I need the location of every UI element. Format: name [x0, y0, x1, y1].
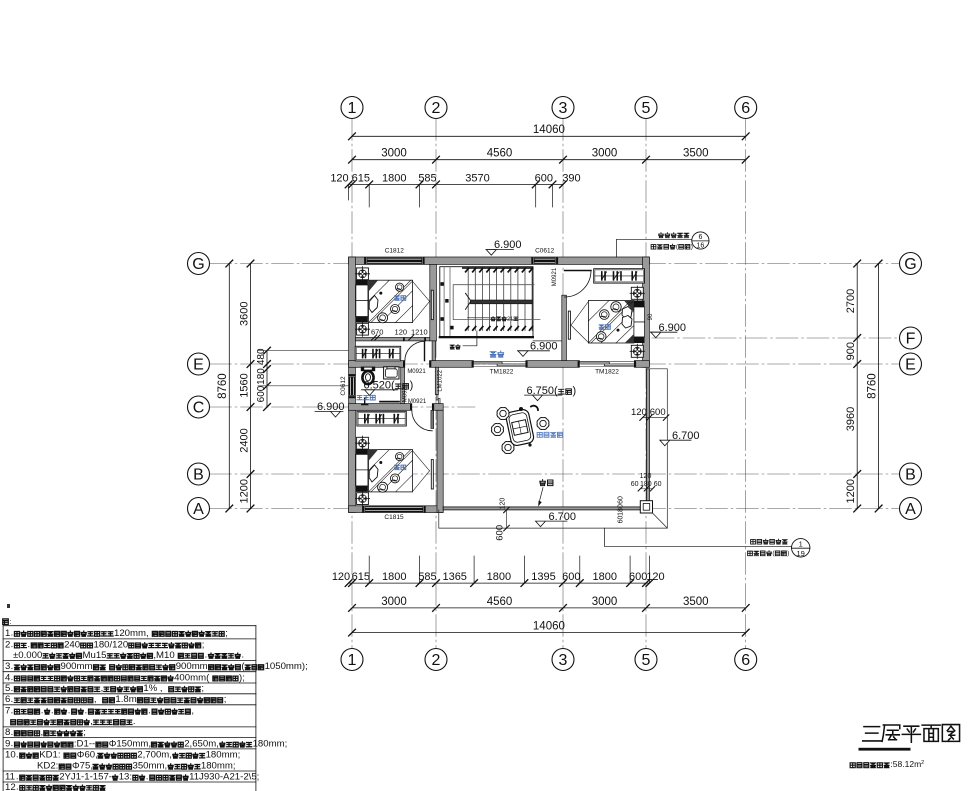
svg-text:5: 5	[5, 683, 10, 694]
svg-text:3: 3	[5, 661, 10, 672]
svg-text:11J930-A21-2\5;: 11J930-A21-2\5;	[189, 772, 259, 783]
svg-text::D1--: :D1--	[74, 739, 95, 750]
svg-text:3000: 3000	[381, 148, 407, 160]
svg-text:2400: 2400	[238, 428, 250, 452]
svg-text:C0612: C0612	[535, 248, 555, 255]
svg-text:KD1:: KD1:	[39, 750, 60, 761]
svg-text:900mm: 900mm	[176, 661, 208, 672]
svg-text:M0921: M0921	[408, 399, 427, 405]
svg-text:,: ,	[90, 716, 93, 727]
svg-text:Mu15: Mu15	[83, 650, 107, 661]
terrace slab edge	[439, 369, 668, 528]
svg-text:8760: 8760	[866, 373, 878, 399]
staircase	[440, 267, 533, 338]
sliding door LM1022	[436, 395, 440, 404]
svg-text:;: ;	[224, 694, 227, 705]
svg-text:): )	[787, 550, 789, 557]
detail bubble 6/16 top	[616, 239, 618, 257]
svg-text:Φ75,: Φ75,	[72, 761, 93, 772]
stair well leader	[463, 331, 477, 346]
sliding door TM1822 right	[579, 360, 634, 362]
svg-text:60: 60	[617, 516, 624, 524]
door M0921 bedroom2 (leaf+arc)	[431, 410, 434, 428]
svg-text:2: 2	[5, 639, 10, 650]
svg-text:KD2:: KD2:	[37, 761, 58, 772]
wall bedroom3 west	[562, 295, 567, 360]
axis bubbles right G F E B A	[900, 253, 922, 275]
svg-text:2YJ1-1-157-: 2YJ1-1-157-	[59, 772, 112, 783]
wall bedroom1 east (axis 2)	[430, 264, 437, 341]
svg-text:6: 6	[5, 694, 10, 705]
stair balusters	[441, 282, 444, 286]
svg-text:19: 19	[797, 549, 805, 558]
svg-text:2,700m,: 2,700m,	[137, 750, 172, 761]
bedroom2 wardrobe	[357, 411, 406, 426]
floor drain	[362, 399, 368, 405]
svg-text:C1815: C1815	[384, 514, 404, 521]
svg-text:TM1822: TM1822	[490, 369, 514, 376]
svg-text:3000: 3000	[381, 596, 407, 608]
bedroom1 wardrobe	[355, 346, 401, 361]
svg-text:,: ,	[191, 706, 194, 717]
railing bottom (terrace)	[443, 507, 649, 510]
svg-text:,: ,	[41, 727, 44, 738]
door M0921 bedroom3 (leaf+arc)	[565, 270, 592, 272]
svg-text:2,650m,: 2,650m,	[184, 739, 219, 750]
svg-text:;: ;	[225, 628, 228, 639]
svg-text:): )	[573, 385, 577, 397]
svg-text:,M10: ,M10	[153, 650, 174, 661]
svg-text:60: 60	[631, 481, 639, 488]
svg-text:2700: 2700	[845, 289, 857, 313]
window C0612 left (vertical)	[349, 377, 355, 396]
title san ceng ping mian tu (3rd floor plan)	[863, 727, 881, 741]
svg-text:A: A	[193, 501, 204, 518]
svg-text:B: B	[193, 467, 204, 484]
wall hall/terrace	[435, 367, 438, 394]
svg-text:2: 2	[432, 652, 441, 669]
svg-text:350mm,: 350mm,	[133, 761, 168, 772]
railing label with arrow	[540, 480, 546, 486]
outer wall left (axis 1)	[349, 257, 356, 513]
svg-text:C1812: C1812	[385, 248, 405, 255]
svg-text:1: 1	[348, 100, 357, 117]
svg-text:5: 5	[642, 652, 651, 669]
svg-text:615: 615	[352, 172, 370, 184]
svg-text:±0.000: ±0.000	[13, 650, 42, 661]
railing corner post	[640, 501, 652, 513]
svg-text:58.12m: 58.12m	[893, 759, 921, 769]
svg-text:14060: 14060	[533, 620, 565, 632]
stair handrail	[470, 300, 532, 304]
svg-text:;: ;	[202, 639, 205, 650]
stair treads	[468, 268, 532, 331]
svg-text:TM1822: TM1822	[595, 369, 619, 376]
bottom dimension chain small	[349, 582, 650, 584]
svg-text:120: 120	[330, 172, 348, 184]
svg-text:F: F	[906, 331, 916, 348]
floor area text	[850, 763, 855, 768]
svg-text:3: 3	[559, 100, 568, 117]
svg-text:400mm(: 400mm(	[174, 672, 210, 683]
svg-text:3000: 3000	[592, 596, 618, 608]
svg-text:180mm;: 180mm;	[206, 750, 241, 761]
svg-text:3500: 3500	[683, 596, 709, 608]
terrace table and chairs	[505, 408, 535, 446]
svg-text:615: 615	[352, 571, 370, 583]
svg-text:12: 12	[5, 782, 16, 791]
svg-text:C: C	[193, 400, 205, 417]
svg-text:5: 5	[642, 100, 651, 117]
wall axis C segments	[349, 404, 412, 411]
svg-text:1800: 1800	[382, 571, 406, 583]
svg-text:16: 16	[697, 243, 705, 250]
room labels	[490, 352, 496, 357]
svg-text:13:: 13:	[119, 772, 132, 783]
stair label xia san pao 21 bu	[468, 317, 490, 319]
svg-text:M0921: M0921	[552, 267, 558, 286]
svg-text:585: 585	[418, 172, 436, 184]
svg-text:390: 390	[562, 172, 580, 184]
svg-text:C0612: C0612	[340, 376, 347, 396]
window C0612 top	[534, 258, 556, 264]
general notes table	[3, 619, 9, 624]
svg-text:3570: 3570	[465, 172, 489, 184]
wall corridor west stub	[432, 341, 435, 361]
svg-text:180: 180	[256, 368, 267, 385]
railing right (terrace)	[646, 369, 649, 507]
window C1815 bottom	[365, 506, 423, 512]
svg-text:670: 670	[371, 328, 384, 337]
svg-text:3500: 3500	[683, 148, 709, 160]
svg-text:600: 600	[629, 571, 647, 583]
svg-text:8760: 8760	[217, 373, 229, 399]
top dimension chain 3000 4560 3000 3500	[352, 159, 746, 161]
svg-text:240: 240	[64, 639, 80, 650]
svg-text:600: 600	[650, 407, 666, 418]
bottom dimension chain total 14060	[352, 632, 746, 634]
svg-text:90: 90	[648, 313, 654, 320]
svg-text:G: G	[904, 256, 916, 273]
svg-text:1200: 1200	[238, 479, 250, 503]
svg-text:1800: 1800	[593, 571, 617, 583]
corridor/stair hall divider line	[533, 340, 562, 342]
svg-text:120mm,: 120mm,	[114, 628, 149, 639]
stair mid landing outline	[453, 285, 540, 320]
left small chain 480 180 600	[266, 351, 268, 407]
svg-text:600: 600	[562, 571, 580, 583]
svg-text:180: 180	[617, 504, 624, 516]
svg-text:Φ150mm,: Φ150mm,	[109, 739, 151, 750]
svg-text:180mm;: 180mm;	[253, 739, 288, 750]
svg-text:1395: 1395	[531, 571, 555, 583]
svg-text:1800: 1800	[382, 172, 406, 184]
wash basin	[384, 367, 399, 379]
bedroom2 furniture (copy)	[355, 436, 433, 506]
svg-text:4: 4	[5, 672, 11, 683]
top dimension chain 120 615 1800 585 3570 600 390	[349, 183, 563, 185]
wall bathroom/hall	[401, 367, 405, 403]
detail bubble 1/19 bottom right	[604, 528, 606, 546]
svg-text:600: 600	[494, 525, 505, 541]
svg-text:60: 60	[617, 496, 624, 504]
svg-text:1: 1	[5, 628, 10, 639]
svg-text:A: A	[905, 501, 916, 518]
door jamb caps	[403, 361, 405, 368]
bottom witness lines	[368, 556, 370, 583]
svg-text:B: B	[905, 467, 916, 484]
bed3 corner triangle	[625, 334, 634, 343]
outer wall top (axis G)	[349, 257, 650, 264]
svg-text:1800: 1800	[487, 571, 511, 583]
svg-text:600: 600	[535, 172, 553, 184]
svg-text:2: 2	[432, 100, 441, 117]
svg-text:900mm: 900mm	[61, 661, 93, 672]
left dimension chain total 8760	[228, 264, 230, 509]
svg-text:180/120: 180/120	[94, 639, 129, 650]
svg-text:1560: 1560	[238, 373, 250, 397]
door M0921 bedroom1 (leaf+arc)	[424, 341, 426, 361]
wall bedroom2 east	[437, 410, 443, 512]
svg-text:3000: 3000	[592, 148, 618, 160]
svg-text:,: ,	[101, 683, 104, 694]
bathroom counter edge	[380, 401, 399, 403]
bedroom3 furniture	[631, 287, 643, 299]
bedroom3 wardrobe	[594, 269, 645, 283]
svg-text:3960: 3960	[845, 407, 857, 431]
stair bottom edge thick	[439, 336, 534, 338]
svg-text:180mm;: 180mm;	[201, 761, 236, 772]
bottom dimension chain 3000 4560 3000 3500	[352, 607, 746, 609]
svg-text:E: E	[905, 357, 916, 374]
svg-text:G: G	[192, 256, 204, 273]
svg-text:1200: 1200	[845, 479, 857, 503]
axis bubbles left G E C B A	[188, 253, 210, 275]
wall axis E segments	[349, 361, 405, 368]
bed3 corner triangle	[625, 334, 634, 343]
svg-text:,: ,	[94, 694, 97, 705]
window C1812	[367, 258, 422, 264]
right dimension chain 2700 900 3960 1200	[856, 264, 858, 509]
outer wall bottom of left block (axis A)	[349, 506, 444, 513]
svg-text:Φ60,: Φ60,	[77, 750, 98, 761]
svg-text:900: 900	[845, 342, 857, 360]
svg-text:;: ;	[83, 727, 86, 738]
svg-text:1.8m: 1.8m	[115, 694, 136, 705]
svg-text:1: 1	[348, 652, 357, 669]
svg-text::: :	[9, 619, 11, 626]
svg-text:10: 10	[5, 750, 16, 761]
svg-text:1: 1	[799, 540, 803, 549]
svg-text:8: 8	[5, 727, 10, 738]
svg-text:9: 9	[5, 739, 10, 750]
svg-text:4560: 4560	[487, 148, 513, 160]
svg-text:3: 3	[559, 652, 568, 669]
svg-text:6: 6	[698, 234, 702, 241]
svg-text:2: 2	[921, 760, 924, 766]
svg-text:.: .	[133, 716, 136, 727]
svg-text:21: 21	[507, 316, 513, 322]
svg-text:4560: 4560	[487, 596, 513, 608]
svg-text:E: E	[193, 357, 204, 374]
bedroom1 furniture (bed, stools, closet strip)	[355, 267, 433, 337]
stair top tick row	[462, 267, 534, 269]
left dimension chain 3600 1560 2400 1200	[250, 264, 252, 509]
axis bubbles top and bottom 1 2 3 5 6	[341, 97, 363, 119]
svg-text:1365: 1365	[442, 571, 466, 583]
svg-text:120: 120	[395, 328, 408, 337]
svg-text:6: 6	[741, 652, 750, 669]
top witness lines	[368, 184, 370, 207]
svg-text:7: 7	[5, 706, 10, 717]
outer wall right of upper block (axis 5)	[643, 257, 650, 367]
svg-text:120: 120	[640, 473, 652, 480]
top dimension chain total 14060	[352, 135, 746, 137]
svg-text:M0921: M0921	[407, 369, 426, 375]
svg-text:);: );	[239, 672, 245, 683]
svg-text:600: 600	[256, 385, 267, 402]
svg-text:3600: 3600	[238, 301, 250, 325]
svg-text:6: 6	[741, 100, 750, 117]
right dimension chain total 8760	[878, 264, 880, 509]
svg-text:585: 585	[418, 571, 436, 583]
svg-text:120: 120	[500, 498, 507, 510]
stray mark bottom left	[7, 604, 10, 608]
axis grid lines	[210, 119, 900, 649]
svg-text:1% ,: 1% ,	[143, 683, 162, 694]
wall bedroom1 south (thin)	[355, 338, 429, 341]
svg-text:14060: 14060	[533, 124, 565, 136]
svg-text:1050mm);: 1050mm);	[265, 661, 308, 672]
sliding door TM1822 left	[473, 360, 525, 362]
svg-text:;: ;	[201, 683, 204, 694]
toilet	[361, 367, 375, 372]
svg-text:): )	[410, 380, 414, 392]
tread nosing marks	[466, 268, 533, 330]
svg-text:120: 120	[332, 571, 350, 583]
svg-text:LM1022: LM1022	[438, 369, 444, 391]
